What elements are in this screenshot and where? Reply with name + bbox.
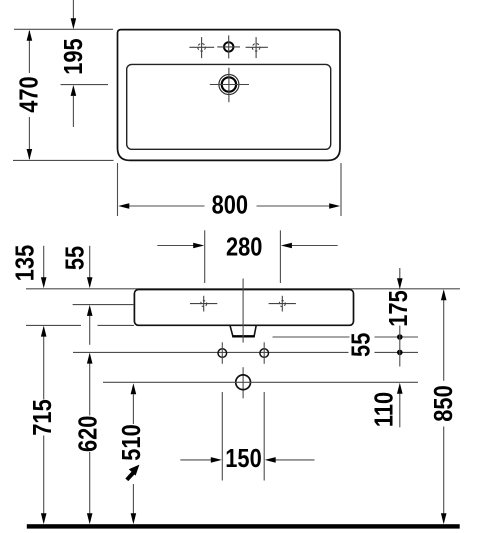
tap hole left (dashed)	[189, 37, 214, 58]
dim 470	[28, 31, 30, 159]
svg-text:715: 715	[28, 399, 57, 435]
svg-text:280: 280	[226, 233, 262, 262]
svg-text:55: 55	[347, 333, 376, 357]
basin body front	[134, 290, 353, 326]
svg-text:55: 55	[61, 246, 90, 270]
basin outer outline	[118, 30, 341, 161]
svg-text:470: 470	[15, 76, 44, 112]
dim 150	[180, 459, 314, 461]
dim 175 / 110 column	[399, 268, 401, 427]
dim 150 extension lines	[222, 392, 264, 481]
dim 620 column	[89, 364, 91, 514]
dim 55 left arrow	[89, 246, 91, 278]
drain trapezoid	[230, 325, 256, 336]
drain circle	[236, 375, 251, 390]
dim 470 extension lines	[13, 29, 114, 160]
fixing hole line	[73, 351, 418, 353]
deck underside ext line	[73, 304, 134, 306]
svg-text:135: 135	[11, 245, 40, 281]
svg-text:195: 195	[59, 38, 88, 74]
svg-text:620: 620	[74, 416, 103, 452]
overflow hole	[210, 68, 249, 103]
svg-text:510: 510	[117, 424, 146, 460]
svg-text:800: 800	[212, 191, 248, 220]
fixing hole left	[218, 342, 227, 364]
front tap mark left	[190, 296, 217, 312]
svg-text:150: 150	[225, 444, 261, 473]
dim 195	[61, 0, 109, 127]
dim 800	[129, 205, 330, 207]
dim 135 arrow	[43, 246, 45, 278]
fixing hole right	[260, 342, 269, 364]
dim 510 column	[132, 394, 134, 513]
dim 850	[443, 300, 445, 514]
tap hole middle	[217, 35, 240, 58]
dim 280 extension lines	[205, 230, 281, 283]
basin inner bowl	[127, 64, 331, 149]
overflow reference line y337	[273, 336, 419, 338]
svg-text:850: 850	[429, 385, 458, 421]
svg-text:110: 110	[370, 392, 399, 427]
adjustable arrow	[127, 471, 135, 479]
drain center line horizontal	[103, 381, 418, 383]
floor line	[27, 524, 460, 528]
svg-text:175: 175	[384, 290, 413, 326]
reference dots	[397, 334, 403, 340]
dim 55 left lower arrow	[89, 316, 91, 345]
front tap mark right	[269, 296, 296, 312]
dim 280	[157, 245, 337, 247]
wall/top reference line	[26, 288, 460, 290]
vertical center line	[242, 279, 244, 399]
tap hole right (dashed)	[246, 37, 268, 58]
body bottom ext line	[26, 324, 134, 326]
dim 715 column	[43, 337, 45, 514]
dim 800 extension lines	[118, 163, 342, 216]
